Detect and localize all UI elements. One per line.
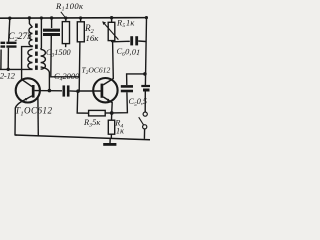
svg-text:Т2ОС612: Т2ОС612 xyxy=(82,66,111,77)
svg-text:R35к: R35к xyxy=(83,118,100,129)
svg-text:С50,5: С50,5 xyxy=(129,97,148,108)
svg-text:R1100к: R1100к xyxy=(55,1,84,13)
svg-text:C2275: C2275 xyxy=(8,32,32,43)
svg-text:R51к: R51к xyxy=(116,18,134,29)
svg-text:1к: 1к xyxy=(116,126,124,135)
svg-text:16к: 16к xyxy=(86,33,100,43)
svg-text:C42000: C42000 xyxy=(54,72,80,83)
svg-text:2-12: 2-12 xyxy=(0,71,16,81)
svg-text:Т1ОС612: Т1ОС612 xyxy=(15,106,53,118)
svg-text:C31500: C31500 xyxy=(46,48,71,59)
svg-text:С60,01: С60,01 xyxy=(116,47,141,59)
